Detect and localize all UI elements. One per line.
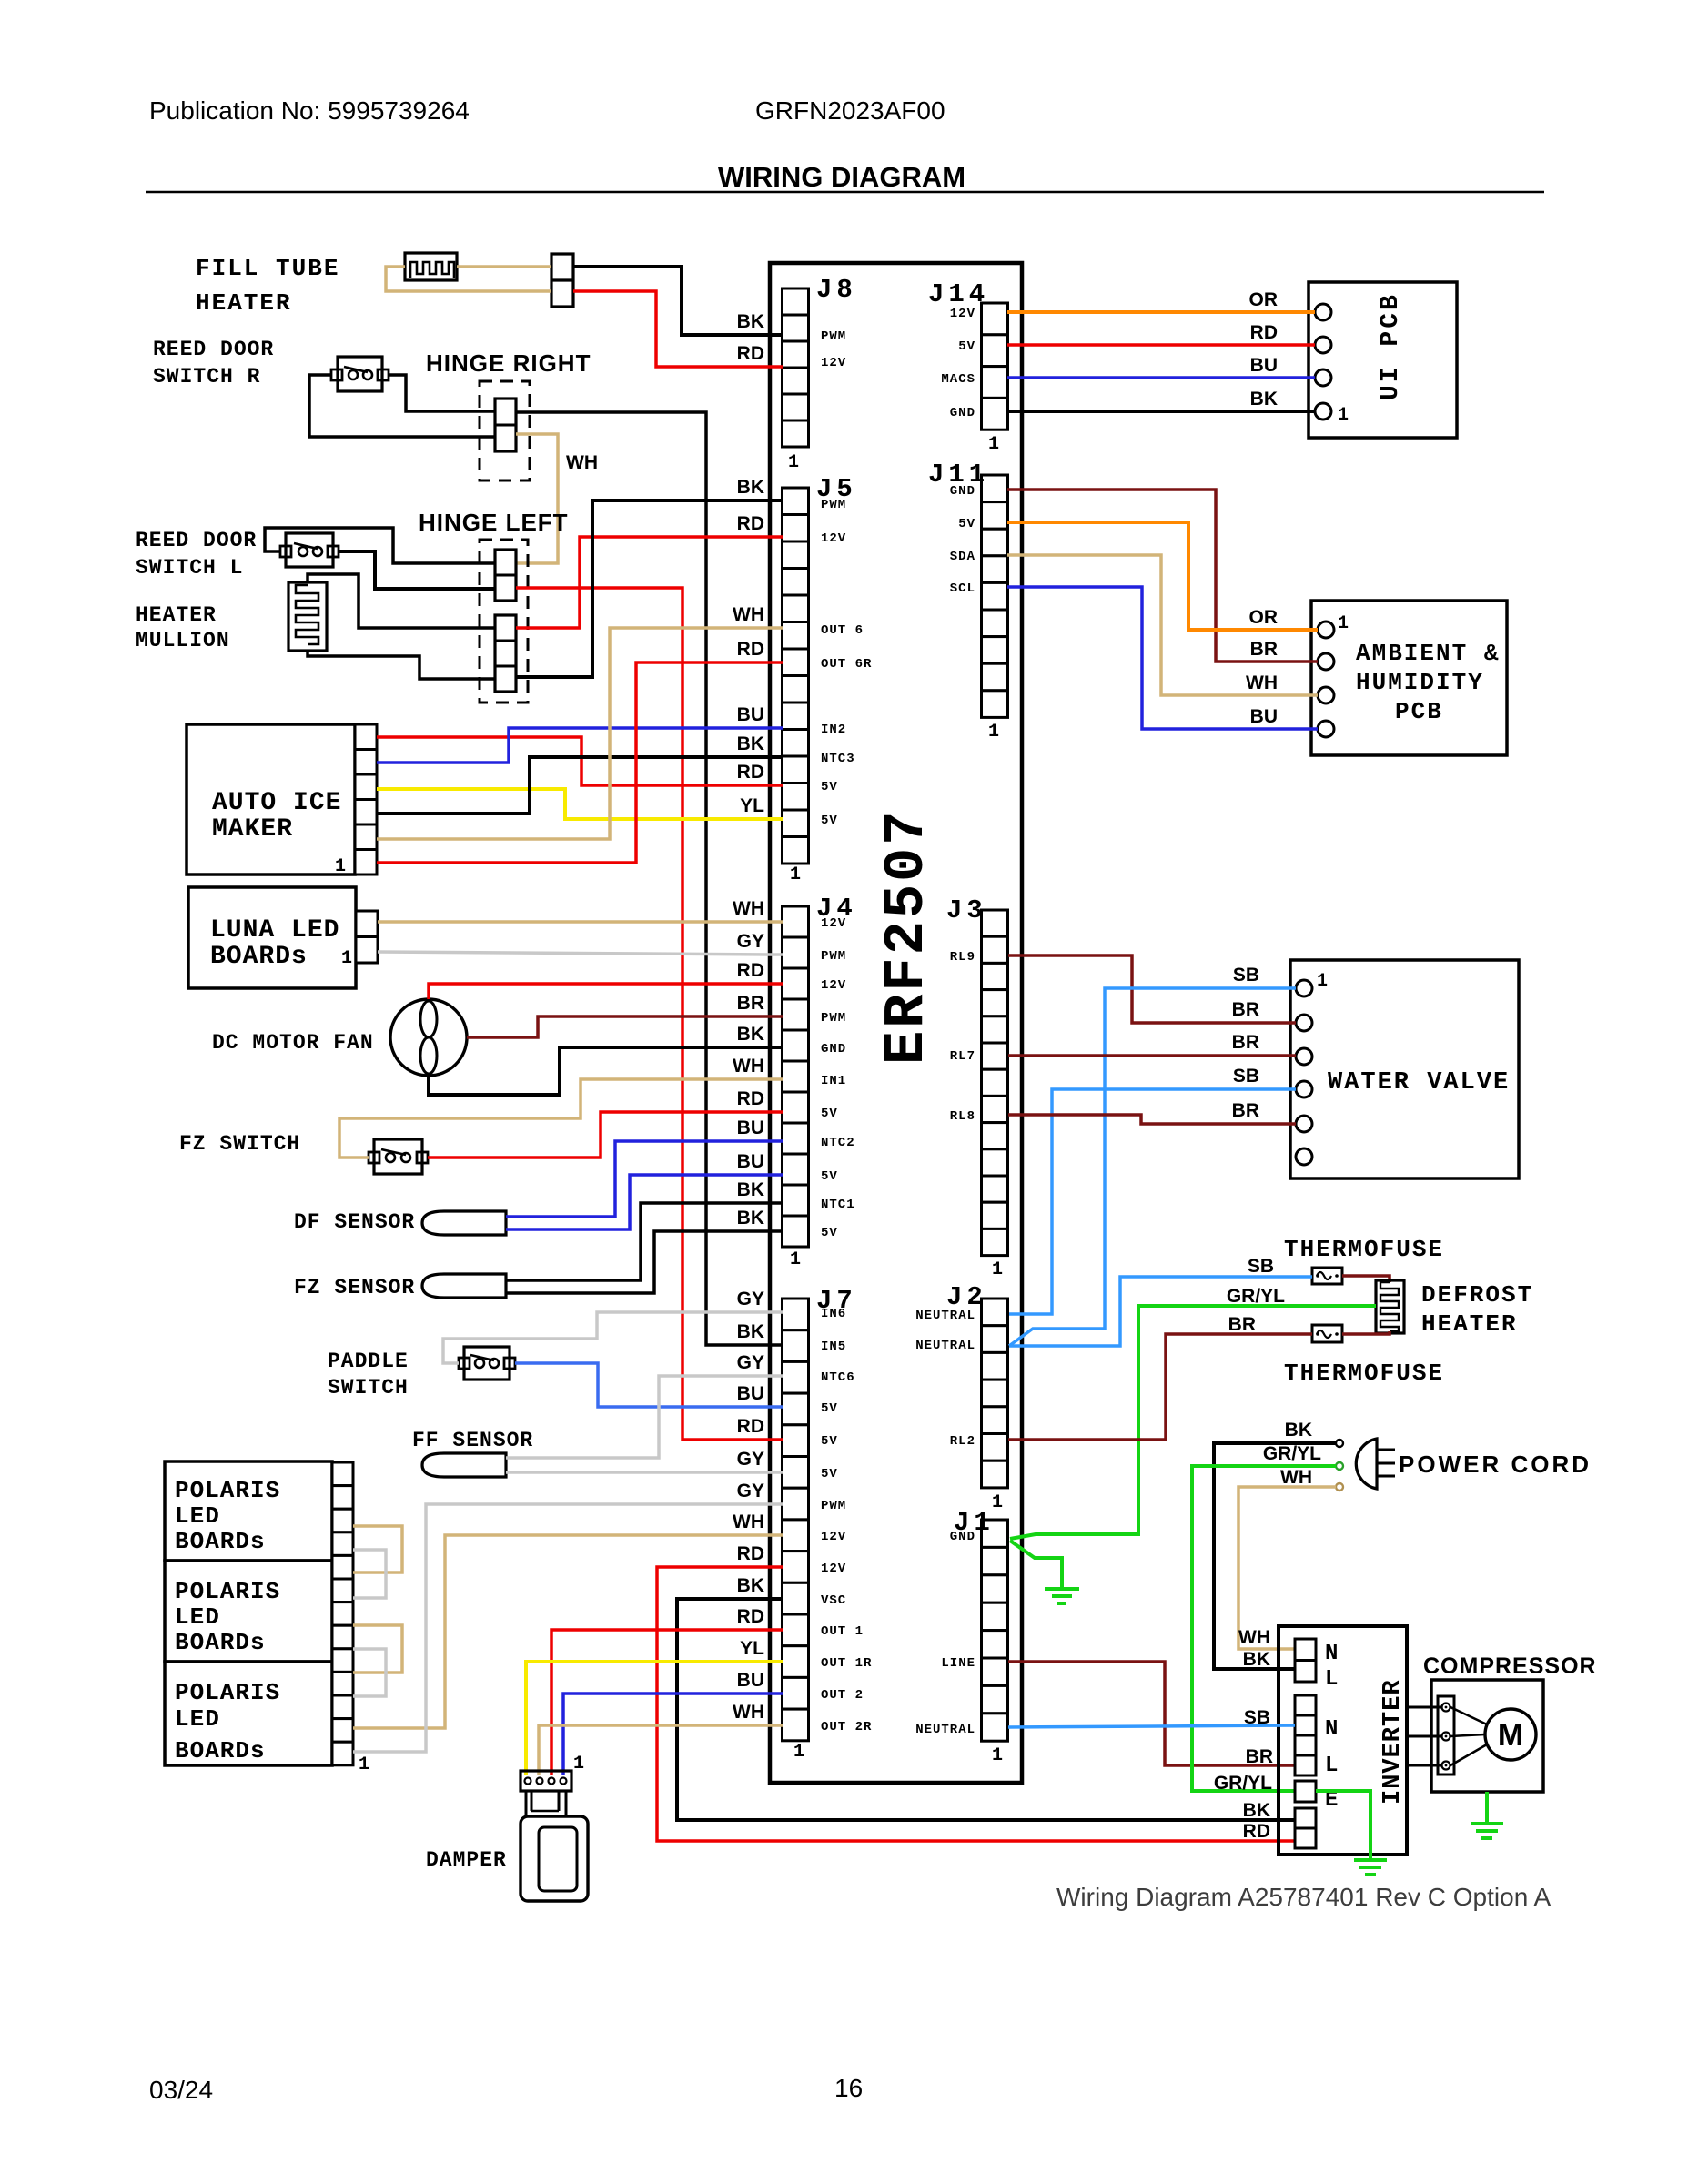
- svg-text:12V: 12V: [821, 916, 846, 931]
- wire BR J3 RL8 to water valve: [1008, 1115, 1296, 1124]
- water valve pin 2: [1296, 1015, 1312, 1031]
- svg-text:NEUTRAL: NEUTRAL: [915, 1723, 975, 1737]
- svg-text:BK: BK: [737, 1179, 764, 1200]
- svg-text:L: L: [1325, 1754, 1338, 1778]
- water valve pin 3: [1296, 1048, 1312, 1065]
- wire GY ff sensor to J7 5V: [506, 1471, 783, 1474]
- thermofuse bottom symbol: [1312, 1325, 1342, 1342]
- svg-text:BK: BK: [737, 1024, 764, 1045]
- svg-text:IN5: IN5: [821, 1340, 846, 1354]
- connector J11 cells: [982, 475, 1008, 717]
- wire RD hinge left pin3 to J5 12V: [516, 537, 783, 628]
- svg-text:1: 1: [992, 1259, 1003, 1280]
- wire BK hinge left pin5 to J5 PWM: [516, 500, 783, 677]
- wire BR J3 RL7 to water valve: [1008, 1054, 1296, 1057]
- wire RD J7 OUT1 to damper: [551, 1630, 783, 1774]
- svg-text:GR/YL: GR/YL: [1263, 1443, 1321, 1464]
- svg-text:L: L: [1325, 1667, 1338, 1692]
- svg-text:1: 1: [790, 864, 801, 885]
- svg-text:NEUTRAL: NEUTRAL: [915, 1339, 975, 1353]
- inverter connector group 1: [1295, 1639, 1316, 1661]
- svg-text:BOARDs: BOARDs: [175, 1528, 266, 1555]
- wire WH polaris link 2: [353, 1625, 402, 1673]
- svg-text:WH: WH: [1246, 672, 1278, 693]
- polaris led boards box 1: [165, 1461, 332, 1561]
- fill tube heater element: [405, 253, 457, 280]
- wire WH J11 SDA to ambient: [1007, 555, 1318, 695]
- wire BK power cord to inverter L: [1214, 1443, 1336, 1669]
- hinge left dashed box: [480, 540, 528, 703]
- connector J5 cells: [783, 488, 809, 864]
- polaris led boards box 3: [165, 1662, 332, 1765]
- svg-text:1: 1: [359, 1754, 369, 1775]
- wire GR defrost heater to J1 GND: [1010, 1306, 1376, 1539]
- wire BK fz sensor to J4 NTC1: [506, 1203, 783, 1280]
- svg-text:SWITCH L: SWITCH L: [136, 556, 243, 580]
- wire WH fill tube right: [457, 265, 551, 268]
- wire BR thermofuse to defrost heater top: [1342, 1276, 1390, 1282]
- svg-text:SB: SB: [1233, 1066, 1259, 1087]
- wire GY luna pin2 to J4 PWM: [378, 952, 783, 955]
- svg-text:12V: 12V: [821, 1562, 846, 1576]
- svg-text:J3: J3: [946, 895, 987, 925]
- svg-text:WH: WH: [733, 1702, 764, 1723]
- hinge right connector: [495, 399, 516, 451]
- ff sensor symbol: [422, 1453, 506, 1477]
- svg-text:HEATER: HEATER: [1421, 1310, 1518, 1338]
- wire BR fan to J4 PWM: [467, 1016, 783, 1037]
- wire BR J11 GND to ambient: [1007, 490, 1318, 662]
- svg-text:MAKER: MAKER: [212, 815, 293, 844]
- svg-text:BK: BK: [737, 733, 764, 754]
- wire BU auto ice pin2 to J5 IN2: [377, 728, 783, 763]
- wire BR J3 RL9 to water valve: [1008, 955, 1296, 1023]
- svg-text:N: N: [1325, 1717, 1338, 1742]
- ground symbol near J1: [1045, 1589, 1079, 1603]
- damper body: [526, 1791, 566, 1816]
- svg-text:LUNA LED: LUNA LED: [210, 916, 339, 945]
- svg-text:NTC2: NTC2: [821, 1136, 855, 1150]
- ui pcb pin 2: [1315, 337, 1331, 353]
- svg-text:BOARDs: BOARDs: [175, 1629, 266, 1656]
- svg-text:BK: BK: [1243, 1800, 1270, 1821]
- svg-text:HUMIDITY: HUMIDITY: [1356, 669, 1484, 696]
- reed door switch R symbol: [338, 357, 382, 391]
- inverter connector group 4: [1295, 1808, 1316, 1828]
- wire BK switch R left loop to hinge right pin2: [309, 375, 495, 437]
- svg-text:GY: GY: [737, 1481, 764, 1501]
- svg-text:GY: GY: [737, 931, 764, 952]
- compressor motor circle: [1485, 1709, 1536, 1760]
- connector J4 cells: [783, 906, 809, 1247]
- wire BK fill tube to J8 PWM: [573, 267, 783, 335]
- ambient pcb pin 1: [1318, 622, 1334, 638]
- svg-text:WH: WH: [1280, 1467, 1312, 1488]
- reed door switch L symbol: [286, 533, 333, 567]
- wire WH fz switch to J4 IN1: [339, 1079, 783, 1158]
- hinge left lower connector: [495, 615, 516, 692]
- svg-text:BOARDs: BOARDs: [175, 1737, 266, 1764]
- svg-text:J14: J14: [928, 279, 989, 309]
- polaris led boards box 2: [165, 1561, 332, 1662]
- svg-text:RD: RD: [1250, 322, 1278, 343]
- svg-text:RL9: RL9: [950, 950, 975, 965]
- svg-text:OUT 2: OUT 2: [821, 1688, 864, 1703]
- wire BK switch R right to hinge right pin1: [389, 375, 495, 411]
- wire BK fan to J4 GND: [429, 1047, 783, 1095]
- ground symbol below inverter: [1354, 1860, 1387, 1875]
- svg-text:PWM: PWM: [821, 1499, 846, 1513]
- wire WH polaris link 1: [353, 1526, 402, 1572]
- svg-text:BR: BR: [1250, 639, 1278, 660]
- svg-text:12V: 12V: [821, 978, 846, 993]
- svg-text:INVERTER: INVERTER: [1380, 1679, 1407, 1805]
- svg-text:WH: WH: [733, 898, 764, 919]
- connector J2 cells: [982, 1299, 1008, 1488]
- wire YL auto ice pin3 to J5 5V: [377, 789, 783, 819]
- wire SB J2 neutral to water valve pin4: [1009, 1089, 1296, 1314]
- svg-text:WH: WH: [733, 1056, 764, 1077]
- title underline: [146, 191, 1544, 194]
- svg-text:WH: WH: [1238, 1627, 1270, 1648]
- svg-text:RD: RD: [737, 1416, 764, 1437]
- svg-text:WATER VALVE: WATER VALVE: [1328, 1069, 1510, 1097]
- water valve pin 5: [1296, 1116, 1312, 1132]
- power cord plug symbol: [1356, 1439, 1377, 1489]
- fill tube heater connector: [551, 254, 573, 307]
- compressor connector: [1438, 1696, 1454, 1774]
- svg-text:IN2: IN2: [821, 723, 846, 737]
- svg-text:OR: OR: [1249, 607, 1279, 628]
- wire GY ff sensor to J7 NTC6: [506, 1376, 783, 1458]
- svg-text:RD: RD: [737, 1088, 764, 1109]
- wire GY polaris to J7 PWM: [353, 1504, 783, 1752]
- wire BK hinge right pin1 to J7 IN5: [516, 412, 783, 1345]
- svg-text:NTC1: NTC1: [821, 1198, 855, 1212]
- svg-text:ERF2507: ERF2507: [874, 809, 939, 1065]
- wire SB J1 NEUTRAL to inverter: [1008, 1725, 1295, 1727]
- wire WH polaris to J7 12V: [353, 1535, 783, 1728]
- svg-text:IN6: IN6: [821, 1307, 846, 1321]
- svg-text:1: 1: [1317, 971, 1328, 992]
- ui pcb pin 4: [1315, 403, 1331, 420]
- svg-text:BU: BU: [737, 704, 764, 725]
- svg-text:M: M: [1498, 1718, 1523, 1753]
- svg-text:N: N: [1325, 1642, 1338, 1666]
- fz sensor symbol: [422, 1274, 506, 1298]
- svg-text:BR: BR: [1232, 1100, 1259, 1121]
- svg-text:LED: LED: [175, 1603, 220, 1631]
- wire inverter to compressor pin2: [1407, 1735, 1441, 1738]
- svg-text:THERMOFUSE: THERMOFUSE: [1284, 1236, 1444, 1263]
- wire GY polaris link 2: [353, 1649, 386, 1696]
- wire BU J7 OUT2 to damper: [563, 1694, 783, 1774]
- wire RD hinge left pin2 to J7 5V: [516, 588, 783, 1440]
- svg-text:J8: J8: [816, 275, 857, 305]
- wire BK mullion bottom to hinge left pin5: [308, 650, 495, 679]
- svg-text:MACS: MACS: [941, 372, 975, 387]
- svg-text:RL8: RL8: [950, 1109, 975, 1124]
- svg-text:BU: BU: [737, 1670, 764, 1691]
- svg-text:BR: BR: [1232, 999, 1259, 1020]
- wire WH power cord to inverter N: [1238, 1487, 1336, 1649]
- svg-text:OUT 2R: OUT 2R: [821, 1720, 872, 1734]
- svg-text:GY: GY: [737, 1449, 764, 1470]
- wire SB J2 neutral to thermofuse: [1009, 1277, 1312, 1346]
- paddle switch symbol: [464, 1347, 510, 1380]
- water valve box: [1290, 960, 1519, 1178]
- svg-text:BK: BK: [737, 1321, 764, 1342]
- ui pcb box: [1309, 282, 1457, 438]
- svg-text:BU: BU: [1250, 355, 1278, 376]
- water valve pin 6: [1296, 1148, 1312, 1165]
- wire BU J11 SCL to ambient: [1007, 587, 1318, 729]
- svg-text:BR: BR: [1232, 1032, 1259, 1053]
- ui pcb pin 3: [1315, 369, 1331, 386]
- svg-text:IN1: IN1: [821, 1074, 846, 1088]
- damper connector: [521, 1771, 571, 1791]
- svg-text:12V: 12V: [821, 531, 846, 546]
- svg-text:GY: GY: [737, 1352, 764, 1373]
- ambient pcb pin 4: [1318, 721, 1334, 737]
- wire RD auto ice pin6 to J5 OUT6R: [377, 662, 783, 863]
- svg-text:5V: 5V: [821, 1107, 838, 1121]
- svg-text:1: 1: [793, 1742, 804, 1763]
- wire YL J7 OUT1R to damper: [526, 1662, 783, 1774]
- svg-text:5V: 5V: [821, 1169, 838, 1184]
- wire WH luna pin1 to J4 12V: [378, 920, 783, 924]
- svg-text:16: 16: [834, 2074, 863, 2102]
- svg-text:RD: RD: [737, 762, 764, 783]
- svg-text:REED DOOR: REED DOOR: [153, 338, 274, 361]
- svg-text:12V: 12V: [950, 307, 975, 321]
- svg-text:POWER CORD: POWER CORD: [1399, 1451, 1592, 1478]
- svg-text:WIRING DIAGRAM: WIRING DIAGRAM: [718, 161, 965, 193]
- water valve pin 4: [1296, 1081, 1312, 1097]
- wire OR J11 5V to ambient: [1007, 522, 1318, 630]
- wire RD J14 5V to ui pcb: [1007, 343, 1315, 347]
- svg-text:BU: BU: [737, 1151, 764, 1172]
- wire BK switch L left loop to hinge left pin1: [265, 528, 495, 563]
- svg-text:OUT 6: OUT 6: [821, 623, 864, 638]
- svg-text:LINE: LINE: [941, 1656, 975, 1671]
- svg-text:LED: LED: [175, 1705, 220, 1733]
- svg-text:BU: BU: [1250, 706, 1278, 727]
- svg-text:DEFROST: DEFROST: [1421, 1281, 1533, 1309]
- svg-text:RD: RD: [737, 960, 764, 981]
- ambient humidity pcb box: [1311, 601, 1507, 755]
- hinge left upper connector: [495, 550, 516, 601]
- svg-text:1: 1: [988, 722, 999, 743]
- wire GY polaris link 1: [353, 1550, 386, 1598]
- svg-text:BU: BU: [737, 1117, 764, 1138]
- svg-text:BK: BK: [737, 477, 764, 498]
- svg-text:YL: YL: [740, 1638, 764, 1659]
- svg-text:12V: 12V: [821, 1530, 846, 1544]
- svg-text:OUT 1R: OUT 1R: [821, 1656, 872, 1671]
- wire BU paddle switch to J7 5V: [515, 1363, 783, 1407]
- svg-text:1: 1: [992, 1745, 1003, 1766]
- wire BU df sensor to J4 NTC2: [506, 1141, 783, 1217]
- wire WH hinge right to hinge left pin1: [516, 434, 558, 563]
- svg-text:HEATER: HEATER: [136, 603, 217, 627]
- svg-text:FF SENSOR: FF SENSOR: [412, 1429, 533, 1452]
- svg-text:BK: BK: [737, 311, 764, 332]
- svg-text:BR: BR: [1246, 1746, 1273, 1767]
- wire BK J7 VSC to inverter BK: [677, 1599, 1295, 1820]
- svg-text:BR: BR: [1228, 1314, 1256, 1335]
- svg-text:COMPRESSOR: COMPRESSOR: [1423, 1653, 1597, 1679]
- svg-text:OUT 6R: OUT 6R: [821, 657, 872, 672]
- heater mullion element: [288, 582, 327, 651]
- ambient pcb pin 3: [1318, 687, 1334, 703]
- wire GR J1 GND fork to ground: [1010, 1541, 1062, 1587]
- wire WH auto ice pin5 to J5 OUT6: [377, 628, 783, 839]
- auto ice maker connector cells: [355, 724, 377, 875]
- svg-text:WH: WH: [733, 604, 764, 625]
- svg-text:PWM: PWM: [821, 329, 846, 344]
- wire WH J7 OUT2R to damper: [539, 1725, 783, 1774]
- svg-text:RD: RD: [737, 1606, 764, 1627]
- svg-text:BOARDs: BOARDs: [210, 943, 308, 971]
- compressor box: [1431, 1680, 1543, 1792]
- svg-text:5V: 5V: [821, 1467, 838, 1481]
- svg-text:NTC6: NTC6: [821, 1370, 855, 1385]
- wire inverter to compressor pin3: [1407, 1764, 1441, 1767]
- svg-text:12V: 12V: [821, 356, 846, 370]
- wire RD auto ice pin1 to J5 5V: [377, 737, 783, 785]
- svg-text:1: 1: [1338, 613, 1349, 634]
- svg-text:AMBIENT &: AMBIENT &: [1356, 640, 1500, 667]
- inverter connector group 3: [1295, 1781, 1316, 1802]
- svg-text:OUT 1: OUT 1: [821, 1624, 864, 1639]
- ground symbol below compressor: [1471, 1792, 1503, 1838]
- svg-text:Publication No: 5995739264: Publication No: 5995739264: [149, 96, 470, 125]
- svg-text:NEUTRAL: NEUTRAL: [915, 1309, 975, 1323]
- svg-text:LED: LED: [175, 1502, 220, 1530]
- svg-text:PCB: PCB: [1395, 698, 1443, 725]
- wire BU J14 MACS to ui pcb: [1007, 376, 1315, 379]
- svg-text:Wiring Diagram A25787401 Rev C: Wiring Diagram A25787401 Rev C Option A: [1056, 1883, 1551, 1911]
- svg-text:GND: GND: [950, 484, 975, 499]
- svg-text:UI PCB: UI PCB: [1377, 292, 1405, 400]
- svg-text:WH: WH: [733, 1512, 764, 1532]
- wire BR defrost bottom link: [1342, 1331, 1390, 1334]
- svg-text:SWITCH R: SWITCH R: [153, 365, 260, 389]
- wire GR inverter E to ground: [1316, 1791, 1370, 1858]
- inverter connector group 2: [1295, 1695, 1316, 1715]
- svg-text:SB: SB: [1248, 1256, 1274, 1277]
- svg-text:1: 1: [788, 452, 799, 473]
- wire BK switch L right to hinge left pin2: [339, 551, 495, 589]
- svg-text:RD: RD: [737, 1543, 764, 1564]
- svg-text:DF SENSOR: DF SENSOR: [294, 1210, 415, 1234]
- svg-text:5V: 5V: [821, 1401, 838, 1416]
- svg-text:HEATER: HEATER: [196, 289, 292, 317]
- svg-text:AUTO ICE: AUTO ICE: [212, 789, 341, 817]
- fz switch symbol: [374, 1139, 422, 1174]
- compressor motor leads: [1450, 1707, 1487, 1765]
- svg-text:BK: BK: [737, 1208, 764, 1228]
- ambient pcb pin 2: [1318, 653, 1334, 670]
- polaris led connector cells: [332, 1462, 353, 1765]
- svg-text:5V: 5V: [821, 1434, 838, 1449]
- svg-text:RL7: RL7: [950, 1049, 975, 1064]
- svg-text:GR/YL: GR/YL: [1227, 1286, 1285, 1307]
- svg-text:BK: BK: [737, 1575, 764, 1596]
- svg-text:POLARIS: POLARIS: [175, 1679, 280, 1706]
- svg-text:5V: 5V: [821, 780, 838, 794]
- svg-text:GR/YL: GR/YL: [1214, 1773, 1272, 1794]
- svg-text:SCL: SCL: [950, 581, 975, 596]
- power cord terminal WH: [1336, 1483, 1343, 1491]
- svg-text:FZ SENSOR: FZ SENSOR: [294, 1276, 415, 1299]
- svg-text:RL2: RL2: [950, 1434, 975, 1449]
- svg-text:PWM: PWM: [821, 498, 846, 512]
- hinge right dashed box: [480, 381, 530, 480]
- thermofuse top symbol: [1312, 1268, 1342, 1284]
- svg-text:YL: YL: [740, 795, 764, 816]
- svg-text:SWITCH: SWITCH: [328, 1376, 409, 1400]
- svg-text:REED DOOR: REED DOOR: [136, 529, 257, 552]
- svg-text:03/24: 03/24: [149, 2076, 213, 2104]
- svg-text:1: 1: [341, 948, 352, 969]
- svg-text:BK: BK: [1285, 1420, 1312, 1441]
- svg-text:NTC3: NTC3: [821, 752, 855, 766]
- main board ERF2507 box: [770, 263, 1022, 1783]
- wire BK auto ice pin4 to J5 NTC3: [377, 757, 783, 814]
- svg-text:GND: GND: [950, 406, 975, 420]
- svg-text:5V: 5V: [821, 814, 838, 828]
- wire BK J14 GND to ui pcb: [1007, 409, 1315, 413]
- svg-text:HINGE RIGHT: HINGE RIGHT: [426, 349, 591, 377]
- svg-text:GY: GY: [737, 1289, 764, 1309]
- connector J7 cells: [783, 1299, 809, 1741]
- svg-text:WH: WH: [566, 452, 598, 473]
- wire RD fill tube to J8 12V: [573, 291, 783, 367]
- svg-text:PWM: PWM: [821, 949, 846, 964]
- svg-text:RD: RD: [737, 343, 764, 364]
- luna led boards box: [188, 887, 356, 988]
- df sensor symbol: [422, 1211, 506, 1235]
- svg-text:MULLION: MULLION: [136, 629, 230, 652]
- wire BR J1 LINE to inverter L: [1008, 1662, 1295, 1765]
- wire WH fill tube left loop: [386, 267, 551, 291]
- wire OR J14 12V to ui pcb: [1007, 310, 1315, 314]
- wire inverter to compressor pin1: [1407, 1706, 1441, 1709]
- connector J8 cells: [783, 288, 809, 447]
- water valve pin 1: [1296, 980, 1312, 996]
- svg-text:GRFN2023AF00: GRFN2023AF00: [755, 96, 945, 125]
- svg-text:1: 1: [790, 1249, 801, 1270]
- wire RD fz switch to J4 5V: [428, 1112, 783, 1158]
- svg-text:RD: RD: [1243, 1821, 1270, 1842]
- svg-text:DAMPER: DAMPER: [426, 1848, 507, 1872]
- svg-text:5V: 5V: [958, 339, 975, 354]
- svg-text:POLARIS: POLARIS: [175, 1477, 280, 1504]
- svg-text:PADDLE: PADDLE: [328, 1350, 409, 1373]
- svg-text:DC MOTOR FAN: DC MOTOR FAN: [212, 1031, 374, 1055]
- svg-text:GND: GND: [950, 1530, 975, 1544]
- svg-text:BU: BU: [737, 1383, 764, 1404]
- svg-text:FILL TUBE: FILL TUBE: [196, 255, 339, 282]
- wire BU df sensor to J4 5V: [506, 1175, 783, 1229]
- svg-text:RD: RD: [737, 513, 764, 534]
- svg-text:RD: RD: [737, 639, 764, 660]
- power cord terminal GR: [1336, 1462, 1343, 1470]
- svg-text:1: 1: [988, 434, 999, 455]
- connector J3 cells: [982, 910, 1008, 1256]
